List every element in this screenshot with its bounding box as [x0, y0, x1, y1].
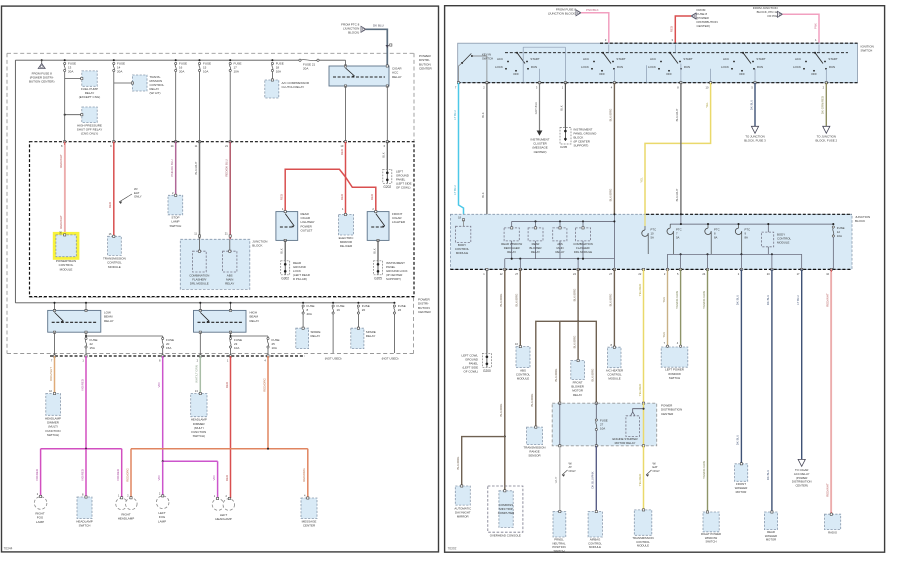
headlamp switch [77, 497, 92, 519]
svg-text:DE-ICER: DE-ICER [340, 244, 353, 248]
wire VIO/RED to headlamp switch [85, 449, 87, 497]
wire BLK/ORG ignition to junction block [613, 83, 615, 215]
wire RED/ORG to right headlamp [130, 449, 132, 498]
wire BLK cigar acc relay to ground G202 [386, 142, 388, 170]
svg-text:10A: 10A [234, 69, 239, 73]
svg-text:RED/ORG: RED/ORG [125, 468, 129, 482]
svg-text:VIO: VIO [157, 475, 161, 481]
svg-text:LOCK: LOCK [495, 65, 503, 69]
wire BLK rear cigar to ground [284, 240, 286, 260]
svg-text:YEL: YEL [639, 177, 643, 183]
svg-text:SUPPORT): SUPPORT) [574, 144, 589, 148]
svg-text:40A: 40A [307, 312, 312, 316]
svg-text:VIO/RED: VIO/RED [116, 469, 120, 481]
svg-text:19: 19 [337, 308, 341, 312]
svg-text:BLK: BLK [481, 192, 485, 198]
svg-text:MODULE: MODULE [60, 267, 73, 271]
svg-text:ACC: ACC [650, 57, 656, 61]
svg-text:10A: 10A [600, 426, 605, 430]
svg-text:8A: 8A [714, 235, 718, 239]
svg-text:CENTER: CENTER [303, 524, 316, 528]
svg-text:LOCK: LOCK [581, 65, 589, 69]
wire BLK/ORG to compass mini trip computer [504, 437, 506, 491]
terminal 6 at junction block top [386, 141, 388, 143]
svg-text:MOTOR: MOTOR [736, 490, 747, 494]
svg-text:26: 26 [398, 308, 402, 312]
svg-text:20A: 20A [179, 69, 184, 73]
svg-text:LT BLU: LT BLU [796, 295, 800, 305]
svg-text:VIO/RED: VIO/RED [35, 469, 39, 481]
svg-text:BLK/ORG: BLK/ORG [609, 108, 613, 122]
left headlamp [212, 499, 224, 511]
svg-text:RED: RED [280, 194, 284, 200]
wire fuse21 to relay [345, 60, 347, 66]
wire WHT/LT GRN to headlamp dimmer 2 [199, 356, 201, 394]
svg-text:TAN/DK GRN: TAN/DK GRN [702, 291, 706, 309]
fuse 16 20A [175, 59, 177, 61]
svg-text:MOTOR: MOTOR [766, 538, 776, 542]
svg-text:DK BLU: DK BLU [749, 100, 753, 110]
svg-text:RED: RED [370, 194, 374, 200]
svg-text:MIRROR: MIRROR [457, 515, 469, 519]
terminal 14 at junction block top [175, 141, 177, 143]
svg-text:DK BLU: DK BLU [766, 295, 770, 305]
wire RED fuse14 to TCM [113, 72, 115, 142]
power distribution center outline (left panel) [7, 52, 414, 54]
spare relay 2 [351, 328, 364, 348]
stop lamp switch [168, 195, 183, 215]
svg-text:LAMP: LAMP [36, 520, 44, 524]
svg-text:MODULE: MODULE [608, 377, 620, 381]
svg-text:RED: RED [670, 26, 674, 32]
svg-text:10A: 10A [272, 346, 277, 350]
ground G302 rear ground lock [281, 261, 290, 275]
svg-text:RED: RED [340, 194, 344, 200]
svg-text:(JUNCTION BLOCK): (JUNCTION BLOCK) [548, 12, 576, 16]
svg-text:D PILLAR): D PILLAR) [293, 277, 307, 281]
svg-text:5A: 5A [651, 235, 655, 239]
wire PNK/DK BLU fuse16 to stop lamp switch [175, 72, 177, 142]
wire VIO to left fog lamp [162, 461, 164, 496]
wire RED/ORG fuse25 to orange bus [267, 356, 269, 449]
high pressure shut off relay [82, 107, 97, 123]
svg-text:ONLY: ONLY [569, 469, 577, 473]
svg-text:15A: 15A [90, 346, 95, 350]
svg-text:DK GRN/RED: DK GRN/RED [821, 96, 825, 114]
rear washer motor [764, 512, 777, 530]
rear window defogger relay [504, 228, 519, 241]
svg-text:RED/ORG: RED/ORG [302, 468, 306, 482]
svg-text:BLK/WHT: BLK/WHT [194, 161, 198, 174]
ignition internal wiring [523, 46, 565, 48]
svg-text:START: START [828, 57, 837, 61]
svg-text:10A: 10A [837, 234, 842, 238]
transmission control module (right panel) [634, 510, 652, 535]
headlamp dimmer multifunction switch 2 [191, 394, 207, 417]
svg-text:VIO/RED: VIO/RED [80, 379, 84, 391]
wire DK BLU to front washer motor [740, 269, 742, 463]
junction block relay bus (top) [512, 220, 615, 222]
fuse 15 10A [198, 59, 200, 61]
svg-text:OFF: OFF [811, 72, 817, 76]
svg-text:RED/WHT: RED/WHT [826, 483, 830, 497]
airbag control module [588, 512, 602, 538]
wire BLK/ORG to abs control module [519, 269, 521, 346]
svg-text:MODULE: MODULE [108, 265, 121, 269]
a/c compressor clutch relay [265, 80, 279, 98]
svg-text:RED/ORG: RED/ORG [262, 378, 266, 392]
svg-text:LT BLU: LT BLU [453, 110, 457, 120]
svg-text:SWITCH: SWITCH [169, 224, 181, 228]
wire VIO/RED to right fog lamp [40, 449, 42, 497]
wire BLK/ORG to a/c heater control module [613, 269, 615, 347]
combination flasher / drl module [193, 251, 207, 272]
svg-text:G302: G302 [281, 276, 289, 280]
abs main relay (junction block) [223, 251, 237, 272]
svg-text:76344: 76344 [4, 547, 13, 551]
svg-text:YEL/RED: YEL/RED [638, 384, 642, 396]
fuse 18 10A [271, 59, 273, 61]
svg-text:SWITCH: SWITCH [861, 49, 873, 53]
overhead console [488, 486, 523, 532]
fuse 25 10A [267, 336, 269, 338]
wire RED/DK BLU fuse17 to abs main relay [229, 72, 231, 142]
wire BLK/ORG blower feed [577, 269, 579, 321]
spare relay 1 [296, 328, 309, 348]
svg-text:RED: RED [340, 149, 344, 155]
svg-text:YEL/RED: YEL/RED [638, 284, 642, 296]
svg-text:LAMP: LAMP [158, 519, 166, 523]
combination flasher drl module (junction block band) [575, 228, 590, 241]
fuse 26 [393, 302, 395, 304]
svg-text:SUPPORT): SUPPORT) [386, 277, 401, 281]
feed triangle FROM FUSE 8 (power distribution center) [38, 64, 45, 69]
wire DK BLU to junction block fuse 3 [754, 83, 756, 127]
svg-text:ACC: ACC [723, 57, 729, 61]
junction block band [450, 214, 852, 269]
terminal 10 at junction block top [344, 141, 346, 143]
svg-text:MODULE: MODULE [456, 251, 468, 255]
svg-text:76302: 76302 [448, 547, 457, 551]
wire BLK/ORG to overhead console [504, 269, 506, 436]
svg-text:SWITCH): SWITCH) [47, 433, 59, 437]
svg-text:CENTER): CENTER) [795, 484, 807, 488]
right panel frame [445, 6, 885, 553]
svg-text:(W/ A/T): (W/ A/T) [150, 91, 161, 95]
svg-text:10A: 10A [203, 69, 208, 73]
wire LT BLU ignition to BCM [459, 83, 464, 227]
svg-text:RELAY: RELAY [104, 319, 114, 323]
junction block connector box (bold dashed) [30, 142, 415, 297]
fuse 17 10A [229, 59, 231, 61]
svg-text:PNK/BLK: PNK/BLK [586, 8, 599, 12]
svg-text:OFF: OFF [599, 72, 605, 76]
svg-text:10A: 10A [234, 346, 239, 350]
wire TAN to left power window switch [667, 269, 669, 345]
front blower motor relay [577, 321, 579, 360]
svg-text:5A: 5A [676, 235, 680, 239]
fuse 20 15A [162, 336, 164, 338]
prndl neutral position switch [553, 512, 566, 538]
instrument panel ground block [560, 128, 571, 145]
body control module (junction block right) [762, 232, 774, 247]
wire TAN/DK GRN to right power window switch [707, 269, 709, 512]
svg-text:DRL MODULE: DRL MODULE [190, 282, 209, 286]
svg-text:RED: RED [225, 382, 229, 388]
svg-text:BLK/WHT: BLK/WHT [675, 188, 679, 201]
fuse 14 20A [113, 59, 115, 61]
svg-text:RELAY: RELAY [366, 334, 376, 338]
svg-text:BLK: BLK [560, 105, 564, 111]
terminal 21 at junction block top [229, 141, 231, 143]
wire DK BLU to rear washer motor [771, 269, 773, 512]
wire RED feed [675, 16, 691, 45]
svg-text:VIO/RED: VIO/RED [80, 469, 84, 481]
wire PNK feed [783, 14, 820, 44]
right fog lamp [34, 497, 47, 510]
svg-text:PNK/DK BLU: PNK/DK BLU [170, 159, 174, 176]
svg-text:BLK/ORG: BLK/ORG [572, 335, 576, 349]
wire YEL/RED junction block to pdc [643, 269, 645, 403]
svg-text:(NOT USED): (NOT USED) [382, 357, 399, 361]
engine starter motor relay [633, 409, 644, 412]
terminal 8 at junction block top [64, 141, 66, 143]
svg-text:RUN: RUN [757, 65, 763, 69]
svg-text:BLOCK): BLOCK) [348, 31, 359, 35]
wire RED fuse23 to left headlamp [230, 356, 232, 498]
right headlamp [116, 498, 128, 510]
wire VIO fuse20 to bus2 [162, 356, 164, 461]
powertrain control module (highlighted) [54, 233, 78, 259]
svg-text:BLK/ORG: BLK/ORG [609, 293, 613, 307]
svg-text:15A: 15A [166, 346, 171, 350]
headlamp dimmer multifunction switch 1 [46, 394, 61, 416]
ground G205 instrument panel ground lock [374, 261, 383, 275]
wire - relay feed bus (bottom pdc) [15, 302, 394, 304]
transmission control module [108, 236, 122, 255]
svg-text:DK BLU: DK BLU [373, 24, 384, 28]
left power window switch [661, 347, 688, 367]
front cigar lighter [367, 212, 389, 241]
wire BLK/WHT ignition to junction block [680, 83, 682, 215]
svg-text:WHT/LT GRN: WHT/LT GRN [195, 365, 199, 383]
svg-text:BLK/ORG: BLK/ORG [499, 403, 503, 417]
svg-text:RUN: RUN [617, 65, 623, 69]
wire VIO/RED fuse22 to bus [85, 356, 87, 449]
svg-text:RELAY: RELAY [250, 319, 260, 323]
svg-text:HEADLAMP: HEADLAMP [118, 517, 135, 521]
svg-text:OVERHEAD CONSOLE: OVERHEAD CONSOLE [490, 534, 521, 538]
wire BLK/ORG branch to mirror [462, 437, 505, 486]
wire VIO to left headlamp [217, 461, 219, 498]
svg-text:OFF: OFF [513, 72, 519, 76]
svg-text:C205: C205 [560, 145, 568, 149]
svg-text:LOCK: LOCK [721, 65, 729, 69]
svg-text:VIO: VIO [157, 382, 161, 388]
wire RED branch to rear cigar lighter [285, 169, 345, 211]
wire - left feed drop [14, 60, 16, 303]
fuse 23 10A [199, 332, 201, 356]
svg-text:MODULE: MODULE [777, 241, 789, 245]
body control module (junction block left) [456, 226, 471, 242]
svg-text:BLK/ORG: BLK/ORG [456, 456, 460, 470]
ignition switch band [458, 43, 858, 82]
svg-text:BLOCK: BLOCK [855, 219, 865, 223]
wire YEL through pdc [643, 403, 645, 446]
svg-text:BLK/ORG: BLK/ORG [499, 293, 503, 307]
svg-text:LOCK: LOCK [793, 65, 801, 69]
svg-text:G202: G202 [383, 185, 391, 189]
right power window switch [703, 512, 719, 532]
svg-text:MODULE: MODULE [589, 545, 601, 549]
ptc 9 8A [738, 224, 740, 228]
svg-text:RELAY: RELAY [392, 75, 402, 79]
wire VIO/RED to right headlamp [121, 449, 123, 498]
svg-text:RED: RED [225, 475, 229, 481]
svg-text:BLOCK: BLOCK [252, 244, 262, 248]
svg-text:START: START [530, 57, 539, 61]
svg-text:CENTER): CENTER) [534, 150, 547, 154]
high beam relay [194, 310, 247, 332]
svg-text:20A: 20A [68, 69, 73, 73]
svg-text:RUN: RUN [684, 65, 690, 69]
svg-text:8A: 8A [745, 235, 749, 239]
svg-text:SWITCH: SWITCH [669, 376, 680, 380]
svg-text:ONLY: ONLY [134, 195, 142, 199]
svg-text:HEADLAMP: HEADLAMP [215, 517, 232, 521]
wire PNK/BLK feed [581, 13, 609, 45]
wire TAN/DK GRN to left power window switch [680, 269, 682, 345]
svg-text:ORG/WHT: ORG/WHT [49, 367, 53, 381]
svg-text:YEL: YEL [705, 102, 709, 108]
ground G200 left cowl ground panel [482, 353, 491, 367]
svg-text:MODULE: MODULE [517, 377, 529, 381]
wire RED branch to front cigar lighter [346, 177, 376, 212]
svg-text:RELAY: RELAY [573, 393, 582, 397]
fuse 27 10A [595, 403, 597, 419]
wire through pdc left [559, 403, 561, 446]
rear cigar lighter power outlet [276, 212, 298, 241]
svg-text:VIO: VIO [212, 475, 216, 481]
svg-text:START: START [756, 57, 765, 61]
svg-text:SWITCH: SWITCH [705, 540, 716, 544]
svg-text:MODULE: MODULE [637, 544, 649, 548]
svg-text:BLK/ORG: BLK/ORG [530, 393, 534, 407]
svg-text:20: 20 [362, 308, 366, 312]
svg-text:OF COWL): OF COWL) [396, 186, 410, 190]
wire WHT pdc to prndl switch [559, 446, 561, 512]
wire RED cigar feed split [345, 142, 347, 215]
automatic day/night mirror [455, 486, 470, 505]
svg-text:WHT: WHT [554, 476, 558, 483]
wire YEL/RED pdc to transmission control module [643, 446, 645, 510]
svg-text:RUN: RUN [829, 65, 835, 69]
fuse 21 20A (inline) [299, 59, 301, 61]
svg-text:SWITCH: SWITCH [482, 57, 493, 61]
svg-text:OF P02: OF P02 [767, 14, 778, 18]
svg-text:RED/DK BLU: RED/DK BLU [225, 159, 229, 176]
wire BLK/WHT fuse15 to combination flasher [199, 72, 201, 142]
fuse 19 [332, 302, 334, 304]
wire relay to junction block (RED) [345, 86, 347, 142]
svg-text:CENTER: CENTER [418, 310, 431, 314]
svg-text:BLK: BLK [372, 248, 376, 254]
svg-text:G205: G205 [374, 276, 382, 280]
front washer motor [735, 464, 748, 482]
svg-text:OF COWL): OF COWL) [464, 370, 478, 374]
transmission range sensor [527, 427, 543, 445]
wire BLK/ORG branch to transmission range sensor [536, 321, 578, 427]
svg-text:SWITCH: SWITCH [79, 524, 91, 528]
power distribution center box (right panel) [552, 403, 657, 446]
svg-text:RELAY: RELAY [225, 282, 234, 286]
svg-text:RELAY: RELAY [311, 334, 321, 338]
svg-text:RED/WHT: RED/WHT [826, 293, 830, 307]
wire RED/ORG to message center [307, 449, 309, 498]
svg-text:TAN: TAN [662, 297, 666, 303]
wire BLK front cigar to ground [377, 240, 379, 260]
svg-text:BLK: BLK [481, 112, 485, 118]
svg-text:BLK/ORG: BLK/ORG [554, 368, 558, 382]
ground G202 left ground panel [383, 169, 392, 183]
left fog lamp [156, 496, 169, 509]
svg-text:LOCK: LOCK [648, 65, 656, 69]
svg-text:SWITCH: SWITCH [553, 549, 564, 553]
svg-text:RADIO: RADIO [828, 531, 838, 535]
terminal 9 at junction block top [113, 141, 115, 143]
ptc 10 5A [644, 226, 646, 230]
wire BLK ignition to ground G200 [486, 83, 488, 354]
svg-text:BLK: BLK [382, 152, 386, 158]
svg-text:SENSOR: SENSOR [528, 454, 540, 458]
svg-text:BLK/ORG: BLK/ORG [572, 288, 576, 302]
fuel pump relay [82, 71, 97, 86]
svg-text:TAN/DK GRN: TAN/DK GRN [675, 291, 679, 309]
svg-text:YEL/RED: YEL/RED [638, 474, 642, 486]
transmission control relay [132, 75, 147, 91]
svg-text:(CNG ONLY): (CNG ONLY) [81, 132, 98, 136]
svg-text:BLK/ORG: BLK/ORG [609, 188, 613, 202]
key-in switch [461, 62, 463, 64]
ptc 8 8A [707, 224, 709, 228]
orange bus [131, 448, 308, 450]
svg-text:START: START [616, 57, 625, 61]
svg-text:DK BLU: DK BLU [766, 470, 770, 480]
svg-text:ACC: ACC [497, 57, 503, 61]
cigar acc relay [329, 66, 389, 86]
svg-text:10A: 10A [276, 69, 281, 73]
svg-text:BLK/ORG: BLK/ORG [515, 293, 519, 307]
connector row below pdc (bold dashed) [50, 355, 305, 357]
svg-text:CENTER: CENTER [419, 67, 432, 71]
fuse 22 15A [54, 332, 56, 356]
abs main relay (junction block band) [553, 228, 567, 241]
fuse 12 10A (junction block) [832, 223, 834, 225]
svg-text:20A: 20A [117, 69, 122, 73]
wire - main feed bus (top) [15, 59, 299, 61]
wire relay right pin to ground [386, 86, 388, 142]
svg-text:RED: RED [108, 202, 112, 208]
fuse 13 20A [64, 59, 66, 61]
svg-text:LIGHTER: LIGHTER [392, 220, 406, 224]
svg-text:OFF: OFF [666, 72, 672, 76]
fuse 8 40A [302, 302, 304, 304]
svg-text:CENTER: CENTER [661, 412, 674, 416]
rear blower relay [528, 228, 543, 241]
wire RED/WHT to radio [830, 269, 832, 514]
wire DK BLU/PNK pdc to airbag control module [595, 446, 597, 512]
ignition switch linkage (dashed) [505, 52, 848, 54]
